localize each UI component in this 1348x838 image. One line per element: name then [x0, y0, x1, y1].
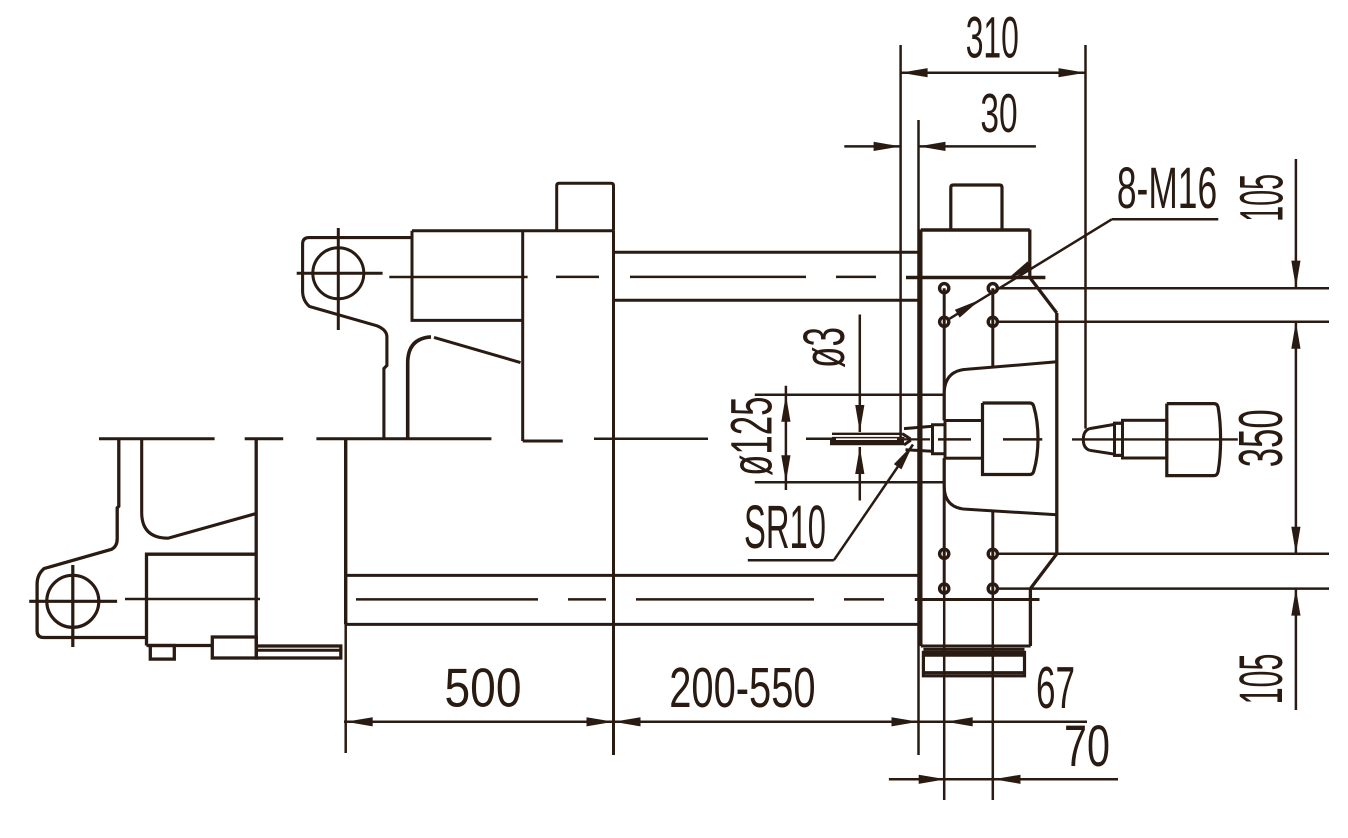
nozzle centerline dash 3 — [897, 438, 930, 440]
nozzle centerline dash 1 — [594, 438, 708, 441]
upper carriage bracket outline — [303, 238, 412, 438]
lower column right edge — [255, 439, 258, 645]
lower centerline dash 3 — [636, 598, 814, 601]
nozzle centerline dash 2 — [806, 438, 836, 441]
upper barrel band bottom — [614, 299, 921, 302]
arrow phi3 up outside — [855, 447, 864, 474]
svg-text:67: 67 — [1036, 656, 1075, 722]
right nozzle cone lower — [1090, 450, 1123, 455]
lower centerline dash 1 — [356, 598, 538, 601]
leader 8-M16 underline — [1112, 218, 1218, 221]
extension line left of 310 — [899, 45, 902, 438]
arrow phi3 down outside — [855, 405, 864, 432]
platen right edge lower — [1029, 589, 1032, 646]
lower centerline dash 2 — [568, 598, 606, 601]
upper barrel band top — [614, 251, 921, 254]
svg-text:ø3: ø3 — [793, 327, 857, 368]
bolt hole lower-left — [940, 549, 949, 558]
nozzle bore inner line — [832, 437, 905, 439]
nozzle centerline dash 6 — [1072, 438, 1238, 440]
bolt hole top-left — [940, 284, 949, 293]
upper centerline crosshair-to-cylinder dash — [389, 276, 527, 279]
leader 8-M16 line — [950, 219, 1112, 319]
lower bracket circle — [47, 575, 99, 627]
upper bracket support arm diagonal — [434, 337, 521, 362]
platen right edge upper — [1028, 230, 1031, 278]
SR10 leader line — [834, 445, 913, 561]
upper centerline dash 3 — [836, 276, 876, 279]
nozzle flange — [933, 425, 946, 454]
nozzle seat cone upper — [904, 425, 933, 429]
upper centerline dash 1 — [556, 276, 599, 279]
platen right diagonal lower — [1030, 554, 1056, 589]
arrow 30 right outside — [919, 142, 946, 151]
bolt hole mid-left — [940, 317, 949, 326]
phi3 dim line upper — [859, 315, 862, 433]
platen foot block inner bottom — [923, 671, 1024, 674]
platen top edge — [921, 228, 1030, 232]
svg-text:ø125: ø125 — [721, 397, 785, 476]
arrow 70 left outside — [919, 775, 946, 784]
SR10 underline — [748, 559, 834, 562]
nozzle centerline dash 4 — [938, 438, 971, 441]
bottom chained dim line 500 / 200-550 / 67 — [344, 721, 1087, 724]
nozzle centerline dash 5 — [1003, 438, 1042, 441]
nozzle seat cone lower — [906, 450, 933, 454]
right nozzle head block — [1167, 404, 1221, 476]
platen left edge — [919, 230, 922, 647]
bolt hole lower-right — [988, 549, 997, 558]
arrow phi125 top — [781, 395, 790, 422]
right dim line 105 top — [1295, 159, 1298, 288]
lower machine body left edge — [344, 439, 347, 625]
platen foot block — [923, 652, 1024, 675]
svg-text:500: 500 — [444, 657, 521, 719]
platen foot line 2 — [923, 648, 1024, 651]
bolt hole bottom-right — [988, 584, 997, 593]
phi125 dim line — [785, 386, 788, 490]
extension line hole column right — [992, 594, 995, 800]
arrow 30 left outside — [874, 142, 901, 151]
injection cylinder body rectangle — [412, 231, 523, 321]
arrow phi125 bottom — [781, 455, 790, 482]
lower circle crosshair vertical — [71, 565, 74, 647]
lower barrel band top — [346, 574, 919, 577]
machine bed line segment 1 — [99, 437, 215, 440]
housing right edge column — [612, 231, 615, 755]
hole row line A — [998, 287, 1329, 290]
cylinder right edge / column divider — [521, 231, 524, 441]
arrow 105 bottom pointing up — [1291, 589, 1300, 616]
bolt hole mid-right — [988, 317, 997, 326]
arrow SR10 leader — [894, 445, 913, 470]
svg-text:30: 30 — [980, 83, 1017, 144]
arrow 200-550 right — [892, 717, 919, 726]
bolt hole stem lower left column — [943, 458, 946, 594]
platen top block — [951, 185, 1002, 230]
hole row line C — [998, 553, 1329, 556]
platen foot block inner top — [923, 654, 1024, 657]
lower circle crosshair horizontal — [29, 600, 117, 603]
lower carriage foot plate B — [256, 646, 341, 658]
svg-text:8-M16: 8-M16 — [1117, 157, 1217, 221]
right dim line 350 — [1295, 322, 1298, 554]
platen pocket upper profile — [944, 362, 1057, 420]
phi125 extension line lower — [755, 481, 944, 484]
arrow 8-M16 upper — [1007, 261, 1032, 279]
extension line right of 30 — [917, 120, 920, 755]
nozzle tip cone — [903, 434, 911, 445]
lower carriage tab foot — [150, 646, 174, 660]
svg-text:70: 70 — [1064, 713, 1110, 779]
platen pocket right edge — [1055, 313, 1058, 554]
arrow 310 right — [1059, 68, 1086, 77]
bolt hole stem upper left column — [943, 288, 946, 420]
arrow 500 left — [346, 717, 373, 726]
column bottom edge — [523, 440, 563, 443]
extension continuation of body edge — [344, 624, 347, 753]
upper bracket rear leg with arc — [408, 337, 431, 438]
platen pedestal top line — [915, 598, 1040, 601]
upper circle crosshair horizontal — [297, 272, 383, 275]
nozzle bore lower thick band — [830, 440, 904, 445]
upper bracket circle — [313, 248, 364, 299]
lower cylinder bottom edge — [147, 644, 213, 647]
svg-text:105: 105 — [1229, 174, 1297, 222]
nozzle bore upper line — [832, 433, 903, 435]
arrow 500 right — [587, 717, 614, 726]
platen right diagonal upper — [1030, 278, 1057, 314]
lower centerline chord in cylinder — [125, 598, 260, 601]
top block on injection housing — [557, 183, 614, 230]
bolt hole top-right — [988, 284, 997, 293]
bolt hole stem upper right column — [991, 288, 994, 367]
extension line hole column left — [943, 594, 946, 800]
nozzle neck — [945, 421, 983, 459]
right nozzle cone upper — [1090, 423, 1123, 428]
svg-text:200-550: 200-550 — [669, 656, 815, 720]
housing top edge — [412, 229, 614, 232]
lower cylinder body rectangle — [147, 554, 258, 645]
dim line 30 right tail — [919, 145, 1036, 148]
arrow 200-550 left — [614, 717, 641, 726]
dim line 310 — [901, 71, 1086, 74]
right nozzle neck — [1123, 420, 1167, 458]
svg-text:105: 105 — [1228, 654, 1296, 705]
arrow 310 left — [901, 68, 928, 77]
right nozzle dome tip — [1083, 429, 1089, 451]
platen heavy mold face line — [906, 276, 1045, 280]
dim line 70 — [889, 778, 1118, 781]
svg-text:SR10: SR10 — [744, 494, 826, 561]
hole row line B — [998, 321, 1329, 324]
arrow 70 right outside — [994, 775, 1021, 784]
lower carriage bracket outline — [37, 439, 146, 638]
phi3 dim line lower — [859, 447, 862, 501]
svg-text:350: 350 — [1226, 409, 1295, 467]
arrow 350 top pointing up — [1291, 322, 1300, 349]
machine bed line segment 3 — [316, 437, 491, 440]
right nozzle flange — [1115, 423, 1123, 455]
svg-text:310: 310 — [966, 5, 1019, 69]
arrow 105 top pointing down — [1291, 261, 1300, 288]
lower bracket rear leg and support arm — [142, 439, 256, 538]
dim line 30 left tail — [844, 145, 900, 148]
bolt hole bottom-left — [940, 584, 949, 593]
lower foot plate B inner line — [256, 649, 341, 652]
lower barrel band bottom — [346, 623, 919, 626]
lower carriage foot plate A — [212, 637, 256, 658]
extension line right of 310 mold face — [1084, 45, 1087, 429]
upper circle crosshair vertical — [337, 228, 340, 330]
hole row line D — [998, 587, 1329, 590]
upper centerline dash 2 — [630, 276, 806, 279]
lower centerline dash 4 — [844, 598, 884, 601]
arrow 8-M16 lower — [955, 300, 980, 318]
nozzle head block — [983, 403, 1039, 475]
machine bed line segment 2 — [245, 437, 284, 440]
phi125 extension line upper — [755, 394, 944, 397]
platen pocket lower profile — [944, 458, 1057, 515]
platen foot line 1 — [921, 645, 1031, 648]
arrow 350 bottom pointing down — [1291, 527, 1300, 554]
bolt hole stem lower right column — [991, 511, 994, 594]
arrow 67 right outside — [946, 717, 973, 726]
right dim line 105 bottom — [1295, 589, 1298, 710]
